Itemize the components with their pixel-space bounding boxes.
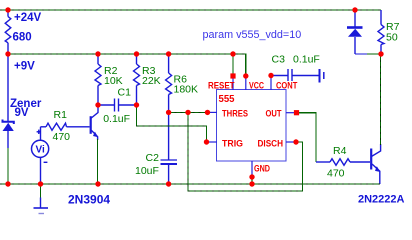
pin RESET (208, 77, 235, 92)
diode (top right) (347, 10, 363, 54)
resistor R7 50 (378, 10, 384, 54)
svg-text:C2: C2 (146, 152, 160, 164)
wire THRES net (169, 111, 208, 113)
svg-text:180K: 180K (174, 83, 199, 95)
wire ground rail (0, 183, 380, 185)
pin GND (252, 161, 270, 184)
svg-text:RESET: RESET (208, 81, 235, 92)
wire OUT net (297, 113, 316, 162)
svg-text:THRES: THRES (222, 108, 248, 119)
svg-text:Vi: Vi (35, 145, 44, 156)
IC 555 timer body (217, 90, 287, 162)
wire diode bottom (355, 53, 381, 55)
svg-text:470: 470 (53, 131, 71, 143)
wire THRES-DISCH loop (188, 112, 303, 191)
svg-text:9V: 9V (15, 107, 29, 119)
svg-text:TRIG: TRIG (222, 138, 243, 149)
svg-text:VCC: VCC (249, 81, 264, 92)
svg-text:470: 470 (327, 168, 345, 180)
pin OUT (266, 108, 298, 119)
svg-text:CONT: CONT (276, 81, 297, 92)
wire zener to ground rail (7, 148, 9, 184)
svg-text:0.1uF: 0.1uF (103, 113, 130, 125)
resistor R2 10K (95, 54, 101, 105)
capacitor C1 0.1uF (98, 99, 137, 112)
svg-text:R1: R1 (54, 109, 68, 121)
svg-text:GND: GND (254, 163, 270, 174)
resistor 680 (5, 10, 11, 54)
svg-text:param v555_vdd=10: param v555_vdd=10 (203, 29, 302, 41)
svg-text:DISCH: DISCH (258, 138, 284, 149)
svg-text:OUT: OUT (266, 108, 282, 119)
svg-text:22K: 22K (142, 75, 161, 87)
wire collector 2N2222A (380, 54, 382, 145)
wire +24V top rail (0, 9, 381, 11)
wire TRIG net (137, 105, 207, 142)
svg-text:10uF: 10uF (135, 165, 159, 177)
svg-text:C1: C1 (118, 87, 132, 99)
svg-text:+24V: +24V (14, 12, 42, 24)
pin CONT (271, 77, 297, 92)
wire dither overlay (0, 10, 381, 191)
transistor Q2 2N2222A (371, 144, 380, 184)
pin TRIG (207, 138, 244, 149)
transistor Q1 2N3904 (91, 105, 99, 140)
svg-text:2N3904: 2N3904 (68, 192, 110, 206)
svg-text:R4: R4 (333, 145, 347, 157)
capacitor C2 10uF (161, 112, 178, 184)
svg-text:C3: C3 (272, 54, 286, 66)
pin THRES (208, 108, 249, 119)
pin square RESET (230, 73, 235, 78)
capacitor C3 0.1uF (271, 69, 324, 83)
zener diode 9V (3, 54, 14, 148)
source Vi (31, 127, 48, 184)
wire +9V rail (8, 54, 246, 76)
svg-text:555: 555 (219, 94, 235, 105)
svg-text:2N2222A: 2N2222A (358, 193, 405, 205)
resistor R6 180K (166, 54, 172, 112)
wire RESET tap (232, 54, 234, 76)
pin VCC (246, 77, 264, 92)
svg-text:0.1uF: 0.1uF (293, 54, 320, 66)
svg-text:50: 50 (386, 31, 398, 43)
resistor R1 470 (41, 123, 90, 130)
resistor R3 22K (134, 54, 140, 105)
svg-text:+9V: +9V (14, 60, 35, 72)
pin square OUT (294, 110, 299, 115)
svg-text:680: 680 (13, 31, 32, 43)
resistor R4 470 (316, 159, 370, 166)
pin DISCH (258, 138, 297, 149)
svg-text:10K: 10K (104, 75, 123, 87)
wire emitter 2N3904 to ground rail (97, 139, 99, 184)
ground symbol (34, 184, 49, 214)
